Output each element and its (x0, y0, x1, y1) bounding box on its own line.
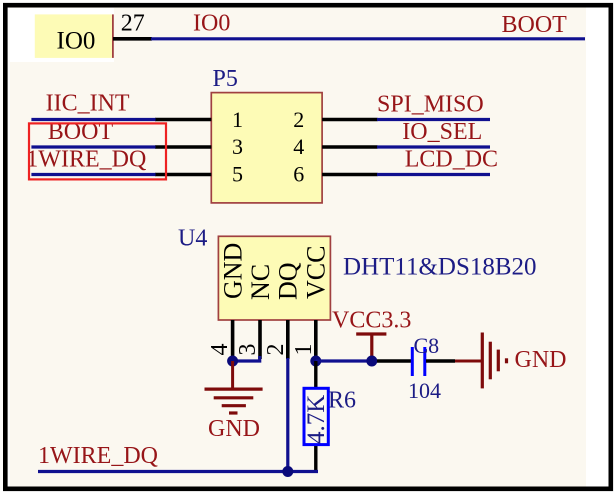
pin 1 line (black) (314, 320, 318, 361)
svg-text:1WIRE_DQ: 1WIRE_DQ (38, 443, 158, 469)
svg-text:DHT11&DS18B20: DHT11&DS18B20 (343, 254, 537, 281)
svg-text:GND: GND (515, 347, 567, 373)
svg-text:BOOT: BOOT (502, 12, 568, 38)
resistor R6 lead top (black) (314, 361, 317, 389)
svg-text:P5: P5 (213, 66, 238, 92)
pin 2 stub (black) (322, 118, 377, 122)
pin 27 stub (black) (113, 37, 152, 41)
svg-text:2: 2 (263, 344, 289, 356)
svg-text:GND: GND (208, 416, 260, 442)
wire BOOT (blue) (31, 145, 155, 148)
svg-text:IIC_INT: IIC_INT (46, 91, 130, 117)
ground symbol GND (205, 389, 263, 413)
ground symbol right (rotated) (482, 333, 506, 389)
svg-text:27: 27 (121, 11, 145, 37)
pin 4 line (black) (231, 320, 235, 359)
svg-text:IO0: IO0 (57, 28, 96, 55)
svg-text:6: 6 (293, 162, 304, 187)
capacitor C8 right pin (black) (426, 359, 455, 362)
pin 3 stub (black) (155, 145, 211, 149)
capacitor C8 plates (412, 347, 425, 376)
power GND lead (dark red) (231, 361, 234, 388)
svg-text:IO_SEL: IO_SEL (402, 119, 482, 145)
svg-text:4: 4 (207, 344, 233, 356)
wire LCD_DC (blue) (377, 173, 490, 176)
svg-text:R6: R6 (328, 388, 356, 414)
svg-text:U4: U4 (178, 226, 207, 252)
svg-text:3: 3 (235, 344, 261, 356)
pin 6 stub (black) (322, 173, 377, 177)
wire pin1 to VCC (blue) (316, 359, 377, 362)
svg-text:1: 1 (291, 344, 317, 356)
wire IIC_INT (blue) (31, 118, 155, 121)
ground lead right (dark red) (455, 360, 482, 363)
svg-text:5: 5 (232, 162, 243, 187)
svg-text:4: 4 (293, 134, 304, 159)
svg-text:LCD_DC: LCD_DC (405, 147, 498, 173)
svg-text:C8: C8 (414, 333, 440, 358)
wire 1WIRE_DQ (blue) (31, 173, 155, 176)
wire DQ vertical (blue) (286, 358, 289, 472)
svg-text:2: 2 (293, 107, 304, 132)
svg-text:4.7K: 4.7K (303, 395, 330, 444)
junction dot VCC (366, 356, 377, 367)
svg-text:NC: NC (246, 264, 275, 300)
svg-text:104: 104 (408, 378, 441, 403)
pin 5 stub (black) (155, 173, 211, 177)
svg-text:3: 3 (232, 134, 243, 159)
port IO0 (35, 14, 113, 58)
wire IO_SEL (blue) (377, 145, 490, 148)
connector P5 body (211, 93, 322, 203)
junction dot pin4 (227, 356, 238, 367)
svg-text:VCC: VCC (302, 246, 331, 299)
wire IO0/BOOT (blue) (151, 37, 585, 40)
svg-text:SPI_MISO: SPI_MISO (377, 92, 484, 118)
junction dot DQ bottom (282, 466, 293, 477)
component U4 body (218, 236, 330, 320)
resistor R6 body (304, 388, 328, 444)
svg-text:IO0: IO0 (193, 11, 230, 37)
wire 1WIRE_DQ bottom (blue) (38, 470, 318, 473)
svg-text:VCC3.3: VCC3.3 (332, 308, 411, 334)
svg-text:GND: GND (219, 243, 248, 299)
capacitor C8 left pin (black) (377, 359, 411, 362)
pin 3 line (black) (258, 320, 262, 359)
pin 1 stub (black) (155, 118, 211, 122)
wire pin3 to pin4 (blue) (233, 356, 260, 361)
annotation red box (29, 123, 166, 179)
svg-text:1: 1 (232, 107, 243, 132)
junction dot pin1 (310, 356, 321, 367)
resistor R6 lead bottom (black) (314, 444, 317, 472)
svg-text:DQ: DQ (274, 262, 303, 300)
pin 2 line (black) (286, 320, 290, 359)
power VCC3.3 symbol (356, 334, 386, 361)
pin 4 stub (black) (322, 145, 377, 149)
svg-text:1WIRE_DQ: 1WIRE_DQ (26, 147, 146, 173)
wire SPI_MISO (blue) (377, 118, 490, 121)
